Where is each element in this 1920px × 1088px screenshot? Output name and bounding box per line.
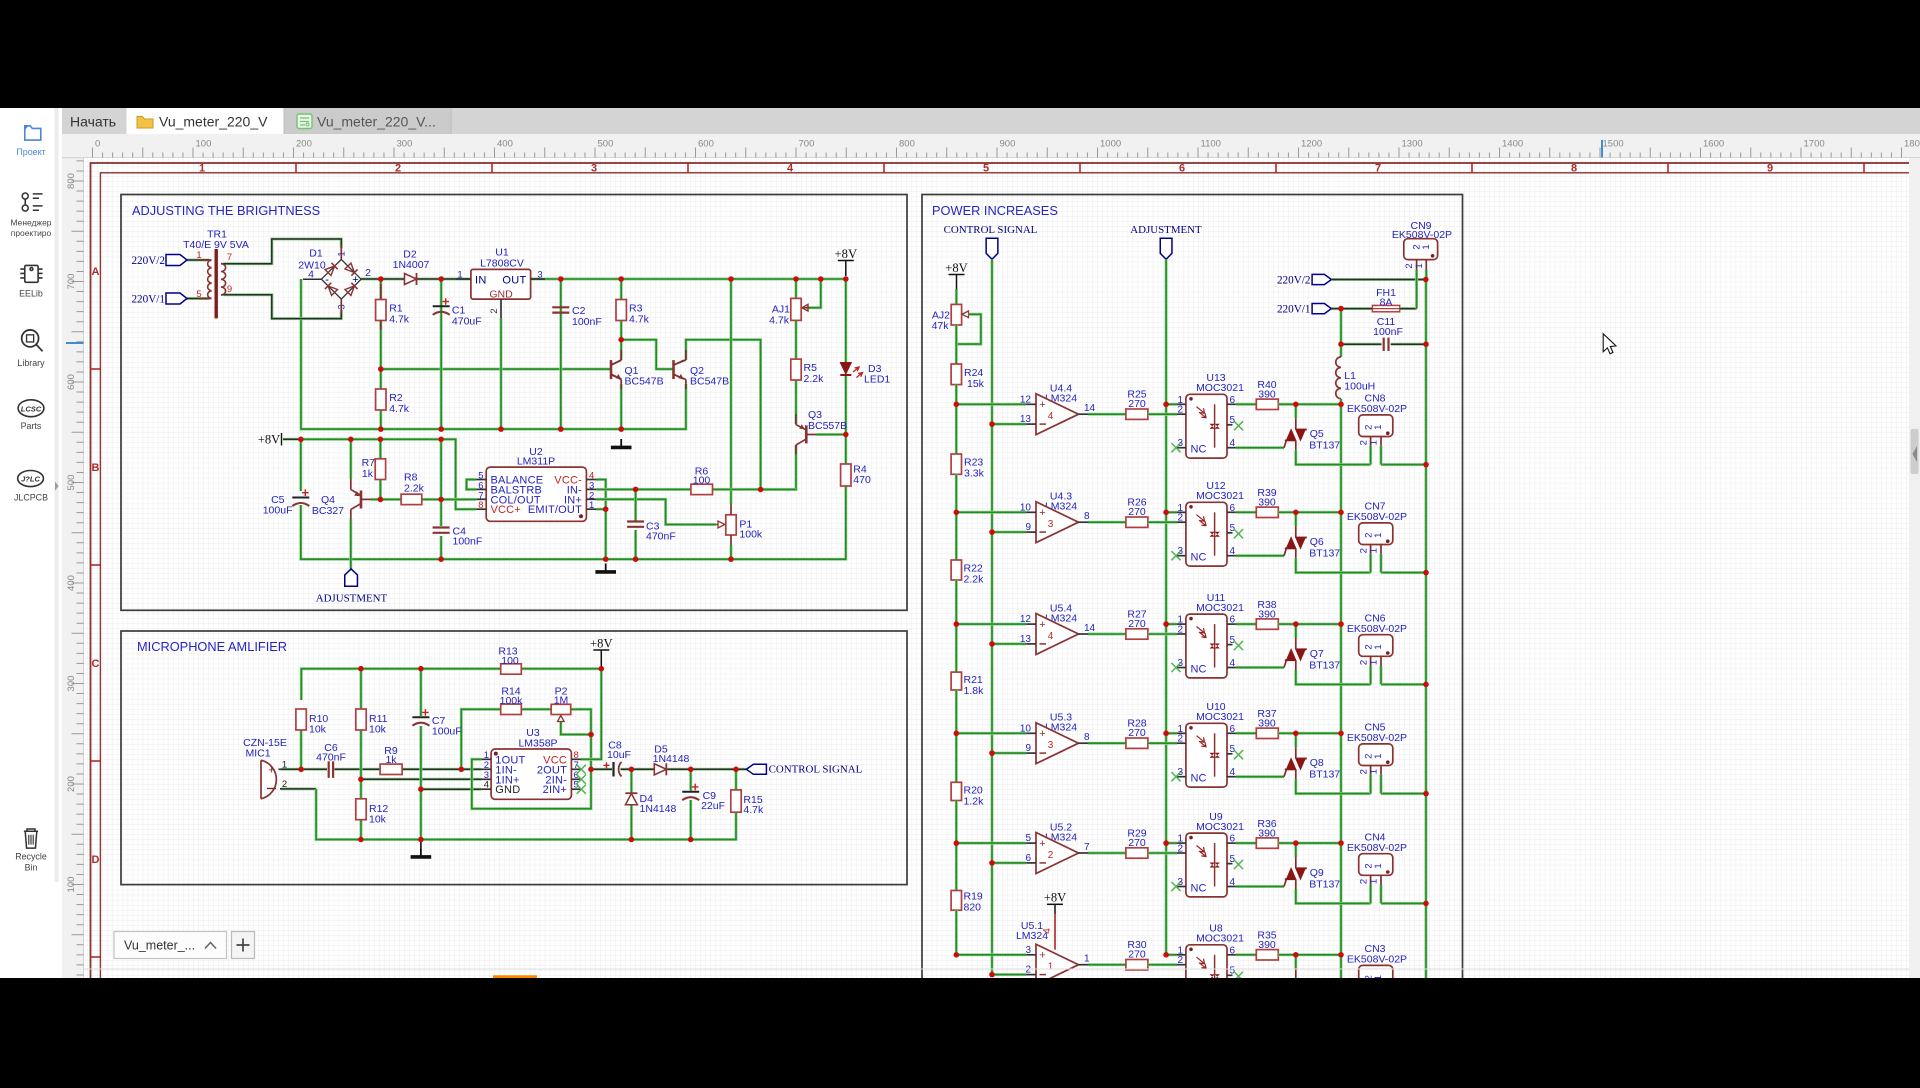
wire ADJUSTMENT stub to MOC pin1	[1166, 403, 1177, 406]
svg-text:12: 12	[1020, 614, 1032, 625]
svg-text:Library: Library	[17, 358, 45, 368]
junction	[378, 497, 384, 503]
svg-text:6: 6	[1230, 395, 1236, 406]
svg-text:100uF: 100uF	[263, 505, 293, 517]
junction	[1293, 731, 1299, 737]
svg-text:4: 4	[1042, 928, 1053, 934]
wire MOC pin4 to triac gate	[1236, 666, 1284, 669]
wire R26 to MOC pin2	[1148, 521, 1177, 524]
svg-text:A: A	[92, 266, 100, 278]
svg-text:270: 270	[1128, 727, 1146, 739]
wire ADJUSTMENT stub to MOC pin1	[1166, 511, 1177, 514]
svg-text:6: 6	[1230, 945, 1236, 956]
svg-text:4: 4	[1230, 877, 1236, 888]
svg-text:NC: NC	[1191, 883, 1207, 895]
svg-text:2.2k: 2.2k	[404, 483, 425, 495]
microphone MIC1 CZN-15E	[243, 737, 287, 799]
svg-text:1: 1	[1373, 533, 1384, 538]
capacitor C11	[1341, 316, 1426, 351]
svg-text:1: 1	[1048, 962, 1054, 973]
junction	[378, 276, 384, 282]
svg-text:1: 1	[196, 250, 201, 261]
svg-text:Проект: Проект	[16, 147, 45, 157]
wire opamp U5.3 input-	[992, 752, 1026, 755]
wire D3 cathode to Q3 base node	[844, 376, 847, 435]
svg-text:700: 700	[66, 274, 77, 290]
svg-text:1k: 1k	[385, 754, 397, 766]
port 220V/2	[166, 255, 187, 266]
wire GND rail y=429	[301, 279, 686, 429]
svg-text:300: 300	[397, 139, 413, 150]
junction	[498, 426, 504, 432]
capacitor C4	[433, 526, 450, 528]
svg-text:BC547B: BC547B	[625, 376, 664, 388]
junction	[843, 276, 849, 282]
svg-text:400: 400	[66, 575, 77, 591]
wire 220V/2 vertical right	[1425, 280, 1428, 979]
svg-text:270: 270	[1128, 949, 1146, 961]
svg-text:10uF: 10uF	[607, 749, 631, 761]
junction	[989, 641, 995, 647]
optocoupler U9 MOC3021	[1171, 811, 1244, 897]
svg-text:4.7k: 4.7k	[389, 403, 410, 415]
svg-text:+8V: +8V	[258, 433, 281, 447]
wire CN pins down	[1369, 775, 1372, 794]
svg-text:1: 1	[1373, 425, 1384, 430]
svg-text:2: 2	[1177, 955, 1183, 966]
junction	[438, 276, 444, 282]
svg-text:390: 390	[1258, 497, 1276, 509]
svg-text:Q8: Q8	[1310, 757, 1324, 769]
svg-text:390: 390	[1258, 389, 1276, 401]
svg-text:220V/1: 220V/1	[131, 293, 165, 305]
bridge rectifier D1	[298, 245, 371, 313]
wire ADJUSTMENT vertical	[1165, 259, 1168, 955]
wire R3 bottom to Q1 collector junction	[620, 321, 623, 361]
junction	[793, 276, 799, 282]
wire MOC pin6 to R38	[1236, 623, 1256, 626]
svg-text:3: 3	[537, 270, 542, 281]
svg-text:D: D	[92, 854, 100, 866]
svg-text:Vu_meter_220_V...: Vu_meter_220_V...	[317, 114, 436, 130]
svg-text:1: 1	[1368, 769, 1379, 774]
svg-text:Q9: Q9	[1310, 867, 1324, 879]
opamp U5.3 LM324	[1020, 712, 1090, 764]
potentiometer AJ1	[769, 298, 810, 326]
svg-text:13: 13	[1020, 414, 1032, 425]
triac Q9 BT137	[1284, 843, 1340, 890]
wire R1 to Q1 base line	[381, 279, 611, 369]
svg-text:1: 1	[1084, 954, 1090, 965]
svg-text:J?LC: J?LC	[21, 475, 40, 484]
wire CN pin1 to 220V/2 vertical	[1381, 571, 1426, 574]
svg-text:2IN+: 2IN+	[543, 784, 567, 796]
fuse FH1 8A	[1372, 287, 1399, 312]
svg-text:1N4007: 1N4007	[393, 259, 430, 271]
wire +8V lower rail y=439.3	[301, 439, 476, 509]
wire L1 bottom to rows vertical	[1340, 399, 1343, 978]
junction	[688, 837, 694, 843]
svg-text:8: 8	[478, 500, 483, 511]
svg-text:1700: 1700	[1804, 139, 1825, 150]
junction	[1338, 731, 1344, 737]
svg-text:4: 4	[484, 780, 489, 791]
wire R30 to MOC pin2	[1148, 963, 1177, 966]
svg-text:6: 6	[1230, 615, 1236, 626]
wire R1/R2 node to R2	[379, 369, 382, 429]
junction	[418, 786, 424, 792]
junction	[733, 767, 739, 773]
wire opamp U4.4 output to R25	[1088, 413, 1126, 416]
wire MOC pin4 to triac gate	[1236, 997, 1284, 1000]
svg-text:1: 1	[1373, 754, 1384, 759]
triac Q6 BT137	[1284, 512, 1340, 559]
wire U2 VCC- and pin1 to ground rail	[596, 480, 605, 560]
potentiometer P2	[551, 686, 571, 722]
svg-text:BT137: BT137	[1309, 548, 1340, 560]
svg-text:LM358P: LM358P	[518, 738, 557, 750]
junction	[588, 732, 594, 738]
resistor R15	[731, 790, 741, 812]
svg-text:47k: 47k	[932, 320, 950, 332]
svg-text:Recycle: Recycle	[15, 852, 47, 862]
junction	[358, 777, 364, 783]
svg-text:1: 1	[1368, 548, 1379, 553]
svg-text:400: 400	[497, 139, 513, 150]
wire MOC pin6 to R35	[1236, 953, 1256, 956]
wire triac Q8 to CN pin2	[1296, 779, 1371, 793]
wire Q4 base / R8 node	[371, 498, 401, 501]
junction	[418, 837, 424, 843]
opamp U5.4 LM324	[1020, 603, 1096, 655]
junction	[1338, 621, 1344, 627]
resistor R38 390	[1256, 619, 1278, 629]
junction	[618, 337, 624, 343]
svg-text:8: 8	[1571, 163, 1577, 175]
svg-text:900: 900	[1000, 139, 1016, 150]
wire opamp U5.4 output to R27	[1088, 633, 1126, 636]
junction	[358, 837, 364, 843]
svg-text:Parts: Parts	[21, 421, 42, 431]
wire R15 vertical	[735, 769, 738, 790]
connector CN3 EK508V-02P	[1347, 943, 1407, 996]
svg-text:1200: 1200	[1301, 139, 1322, 150]
svg-text:1: 1	[1373, 863, 1384, 868]
wire MOC pin6 to R36	[1236, 842, 1256, 845]
svg-text:1: 1	[1373, 975, 1384, 978]
wire MOC pin4 to triac gate	[1236, 775, 1284, 778]
transistor Q4 BC327	[312, 479, 371, 519]
section box MICROPHONE AMLIFIER	[121, 631, 907, 885]
junction	[459, 767, 465, 773]
svg-text:+: +	[1039, 507, 1045, 519]
junction	[438, 497, 444, 503]
svg-text:Bin: Bin	[25, 862, 38, 872]
svg-text:4.7k: 4.7k	[629, 314, 650, 326]
svg-text:4: 4	[1230, 438, 1236, 449]
wire R35 to triac gate node	[1278, 953, 1341, 956]
svg-text:5: 5	[1230, 415, 1236, 426]
wire R11 top	[360, 669, 363, 709]
svg-text:LCSC: LCSC	[21, 404, 42, 413]
resistor R21	[951, 672, 961, 690]
svg-text:800: 800	[66, 173, 77, 189]
svg-text:1.8k: 1.8k	[964, 685, 985, 697]
wire C5 top	[299, 439, 302, 491]
svg-text:100: 100	[693, 475, 711, 487]
resistor R24	[951, 364, 961, 385]
junction	[618, 276, 624, 282]
wire R28 to MOC pin2	[1148, 742, 1177, 745]
svg-text:Q7: Q7	[1310, 648, 1324, 660]
svg-text:2: 2	[1177, 513, 1183, 524]
svg-text:4: 4	[1230, 767, 1236, 778]
wire CN pin1 to 220V/2 vertical	[1381, 902, 1426, 905]
svg-text:ADJUSTMENT: ADJUSTMENT	[316, 593, 388, 605]
svg-text:MOC3021: MOC3021	[1196, 711, 1244, 723]
wire 220V/1 to FH1	[1331, 307, 1372, 310]
svg-text:1: 1	[199, 163, 205, 175]
wire mic pin1 to C6	[281, 768, 327, 771]
junction	[1423, 682, 1429, 688]
wire AJ1 wiper to rail	[806, 279, 821, 308]
wire FH1 to CN9 pin2	[1400, 307, 1417, 310]
wire opamp U5.4 input-	[992, 642, 1026, 645]
svg-text:POWER INCREASES: POWER INCREASES	[932, 203, 1058, 218]
capacitor C6	[316, 742, 346, 778]
junction	[989, 421, 995, 427]
svg-text:4: 4	[1230, 658, 1236, 669]
wire chain R21-R20	[955, 690, 958, 782]
net flag ADJUSTMENT	[345, 569, 358, 586]
port 220V/1 right	[1312, 304, 1331, 314]
wire bridge out through D2 to U1 IN	[361, 278, 471, 281]
capacitor C1	[442, 298, 449, 305]
resistor R25 270	[1126, 409, 1148, 419]
junction	[378, 437, 384, 443]
wire CN9 pin2 down to fuse	[1415, 270, 1418, 309]
wire P1 bottom	[730, 545, 733, 559]
svg-text:1: 1	[1368, 879, 1379, 884]
left sidebar	[0, 108, 62, 978]
junction	[603, 556, 609, 562]
svg-text:GND: GND	[495, 784, 520, 796]
net flag CONTROL SIGNAL top	[986, 238, 998, 259]
junction	[418, 666, 424, 672]
svg-text:10: 10	[1020, 723, 1032, 734]
icon Recycle Bin	[24, 829, 38, 848]
wire C2 vertical	[559, 279, 562, 429]
svg-text:1500: 1500	[1603, 139, 1624, 150]
svg-text:1100: 1100	[1201, 139, 1221, 150]
svg-text:JLCPCB: JLCPCB	[14, 492, 48, 502]
wire opamp U4.3 output to R26	[1088, 521, 1126, 524]
connector CN8 EK508V-02P	[1347, 393, 1407, 465]
svg-text:6: 6	[1230, 834, 1236, 845]
junction	[1423, 462, 1429, 468]
junction	[1293, 402, 1299, 408]
svg-text:6: 6	[1179, 163, 1185, 175]
svg-text:+: +	[1039, 728, 1045, 740]
optocoupler U8 MOC3021	[1171, 923, 1244, 1009]
svg-text:1400: 1400	[1502, 139, 1523, 150]
svg-text:1600: 1600	[1703, 139, 1724, 150]
wire C6 to R9	[335, 768, 381, 771]
transistor Q3 BC557B	[796, 409, 847, 454]
svg-text:390: 390	[1258, 609, 1276, 621]
wire 220V/2 port to TR1 pin1	[187, 259, 209, 262]
wire opamp U5.3 input+	[956, 732, 1026, 735]
wire 220V/2 to CN9	[1331, 278, 1425, 281]
svg-text:300: 300	[66, 676, 77, 692]
svg-text:EK508V-02P: EK508V-02P	[1347, 842, 1407, 854]
junction	[558, 426, 564, 432]
svg-text:3: 3	[591, 163, 597, 175]
svg-text:1: 1	[1373, 644, 1384, 649]
wire R6 right to Q3 collector line	[713, 488, 797, 491]
svg-text:+: +	[1039, 619, 1045, 631]
svg-text:1800: 1800	[1904, 139, 1920, 150]
svg-text:14: 14	[1084, 403, 1096, 414]
svg-text:100k: 100k	[500, 695, 524, 707]
junction	[989, 972, 995, 978]
svg-text:B: B	[92, 462, 100, 474]
inductor L1 100uH	[1336, 357, 1375, 399]
wire ADJUSTMENT stub to MOC pin1	[1166, 842, 1177, 845]
wire 220V/1 port to TR1 pin5	[187, 297, 209, 300]
wire +8V label to C5	[283, 438, 301, 441]
wire +8V rail to P1 top	[730, 279, 733, 505]
junction	[378, 426, 384, 432]
svg-text:ADJUSTING THE BRIGHTNESS: ADJUSTING THE BRIGHTNESS	[132, 203, 320, 218]
svg-text:5: 5	[1025, 833, 1031, 844]
junction	[1338, 952, 1344, 958]
wire Q2 collector to x=760 vertical	[686, 340, 761, 490]
svg-text:390: 390	[1258, 828, 1276, 840]
resistor R10	[296, 709, 306, 730]
wire C4 vertical top	[440, 439, 443, 526]
wire opamp U4.3 input+	[956, 511, 1026, 514]
opamp U5.1 LM324	[1016, 891, 1090, 986]
svg-text:MICROPHONE AMLIFIER: MICROPHONE AMLIFIER	[137, 639, 287, 654]
svg-text:NC: NC	[1191, 773, 1207, 785]
junction	[1423, 791, 1429, 797]
svg-text:LED1: LED1	[864, 374, 890, 386]
diode D5 1N4148	[653, 744, 690, 776]
svg-text:1.2k: 1.2k	[964, 796, 985, 808]
optocoupler U13 MOC3021	[1171, 372, 1244, 458]
svg-text:390: 390	[1258, 939, 1276, 951]
icon Проект	[25, 126, 41, 140]
wire R4 bottom to ground rail	[301, 486, 846, 559]
junction	[954, 840, 960, 846]
junction	[1338, 341, 1344, 347]
junction	[1163, 510, 1169, 516]
svg-text:Q5: Q5	[1310, 428, 1324, 440]
svg-text:270: 270	[1128, 618, 1146, 630]
wire R36 to triac gate node	[1278, 842, 1341, 845]
triac Q7 BT137	[1284, 624, 1340, 671]
ground under Q1	[620, 439, 622, 446]
junction	[1338, 510, 1344, 516]
icon Library	[22, 330, 43, 351]
svg-text:BC557B: BC557B	[808, 420, 847, 432]
wire TR1 pin9 to bridge bottom	[224, 295, 341, 319]
junction	[989, 860, 995, 866]
wire opamp U5.1 input-	[992, 973, 1026, 976]
svg-text:MOC3021: MOC3021	[1196, 821, 1244, 833]
junction	[298, 437, 304, 443]
junction	[1163, 402, 1169, 408]
svg-text:NC: NC	[1191, 444, 1207, 456]
wire opamp U5.1 input+	[956, 953, 1026, 956]
svg-text:1N4148: 1N4148	[640, 803, 677, 815]
icon Менеджер проектирования	[22, 193, 42, 211]
resistor R6	[691, 484, 713, 494]
svg-text:EELib: EELib	[19, 289, 43, 299]
resistor R39 390	[1256, 507, 1278, 517]
transistor Q2 BC547B	[674, 350, 730, 389]
svg-text:EK508V-02P: EK508V-02P	[1347, 623, 1407, 635]
wire D4 vertical	[630, 769, 633, 793]
wire R25 to MOC pin2	[1148, 413, 1177, 416]
svg-text:Q6: Q6	[1310, 536, 1324, 548]
wire TR1 pin7 to bridge top	[224, 239, 341, 264]
svg-text:270: 270	[1128, 837, 1146, 849]
svg-text:6: 6	[1230, 503, 1236, 514]
junction	[1423, 901, 1429, 907]
svg-text:220V/2: 220V/2	[1277, 274, 1311, 286]
wire MOC pin6 to R37	[1236, 732, 1256, 735]
junction	[1163, 952, 1169, 958]
svg-text:ADJUSTMENT: ADJUSTMENT	[1130, 224, 1202, 236]
svg-text:+8V: +8V	[1044, 891, 1067, 905]
junction	[298, 767, 304, 773]
svg-text:1: 1	[1368, 660, 1379, 665]
wire CN pin1 to 220V/2 vertical	[1381, 792, 1426, 795]
svg-text:8: 8	[1084, 511, 1090, 522]
wire R14 right to P2	[521, 708, 551, 711]
svg-text:500: 500	[66, 475, 77, 491]
junction	[358, 666, 364, 672]
wire U2 IN- to R6 and Q3	[596, 488, 691, 491]
optocoupler U12 MOC3021	[1171, 480, 1244, 566]
svg-text:10k: 10k	[369, 724, 387, 736]
svg-text:3: 3	[1025, 945, 1031, 956]
svg-text:-: -	[325, 274, 329, 286]
svg-text:EK508V-02P: EK508V-02P	[1347, 954, 1407, 966]
potentiometer AJ2	[932, 304, 969, 332]
svg-text:3: 3	[1048, 519, 1054, 530]
junction	[438, 426, 444, 432]
junction	[599, 666, 605, 672]
resistor R8	[401, 494, 422, 504]
svg-text:MOC3021: MOC3021	[1196, 602, 1244, 614]
svg-text:4: 4	[787, 163, 794, 175]
svg-text:CONTROL SIGNAL: CONTROL SIGNAL	[769, 764, 863, 776]
svg-text:Vu_meter_...: Vu_meter_...	[124, 939, 195, 953]
svg-text:EK508V-02P: EK508V-02P	[1347, 511, 1407, 523]
opamp U3 LM358P	[482, 727, 586, 799]
wire R3 top	[620, 279, 623, 300]
svg-text:2: 2	[1177, 625, 1183, 636]
junction	[818, 276, 824, 282]
wire chain R23-R22	[955, 474, 958, 560]
icon JLCPCB	[18, 471, 44, 487]
junction	[758, 487, 764, 493]
resistor R40 390	[1256, 399, 1278, 409]
wire C4 bottom	[440, 536, 443, 559]
